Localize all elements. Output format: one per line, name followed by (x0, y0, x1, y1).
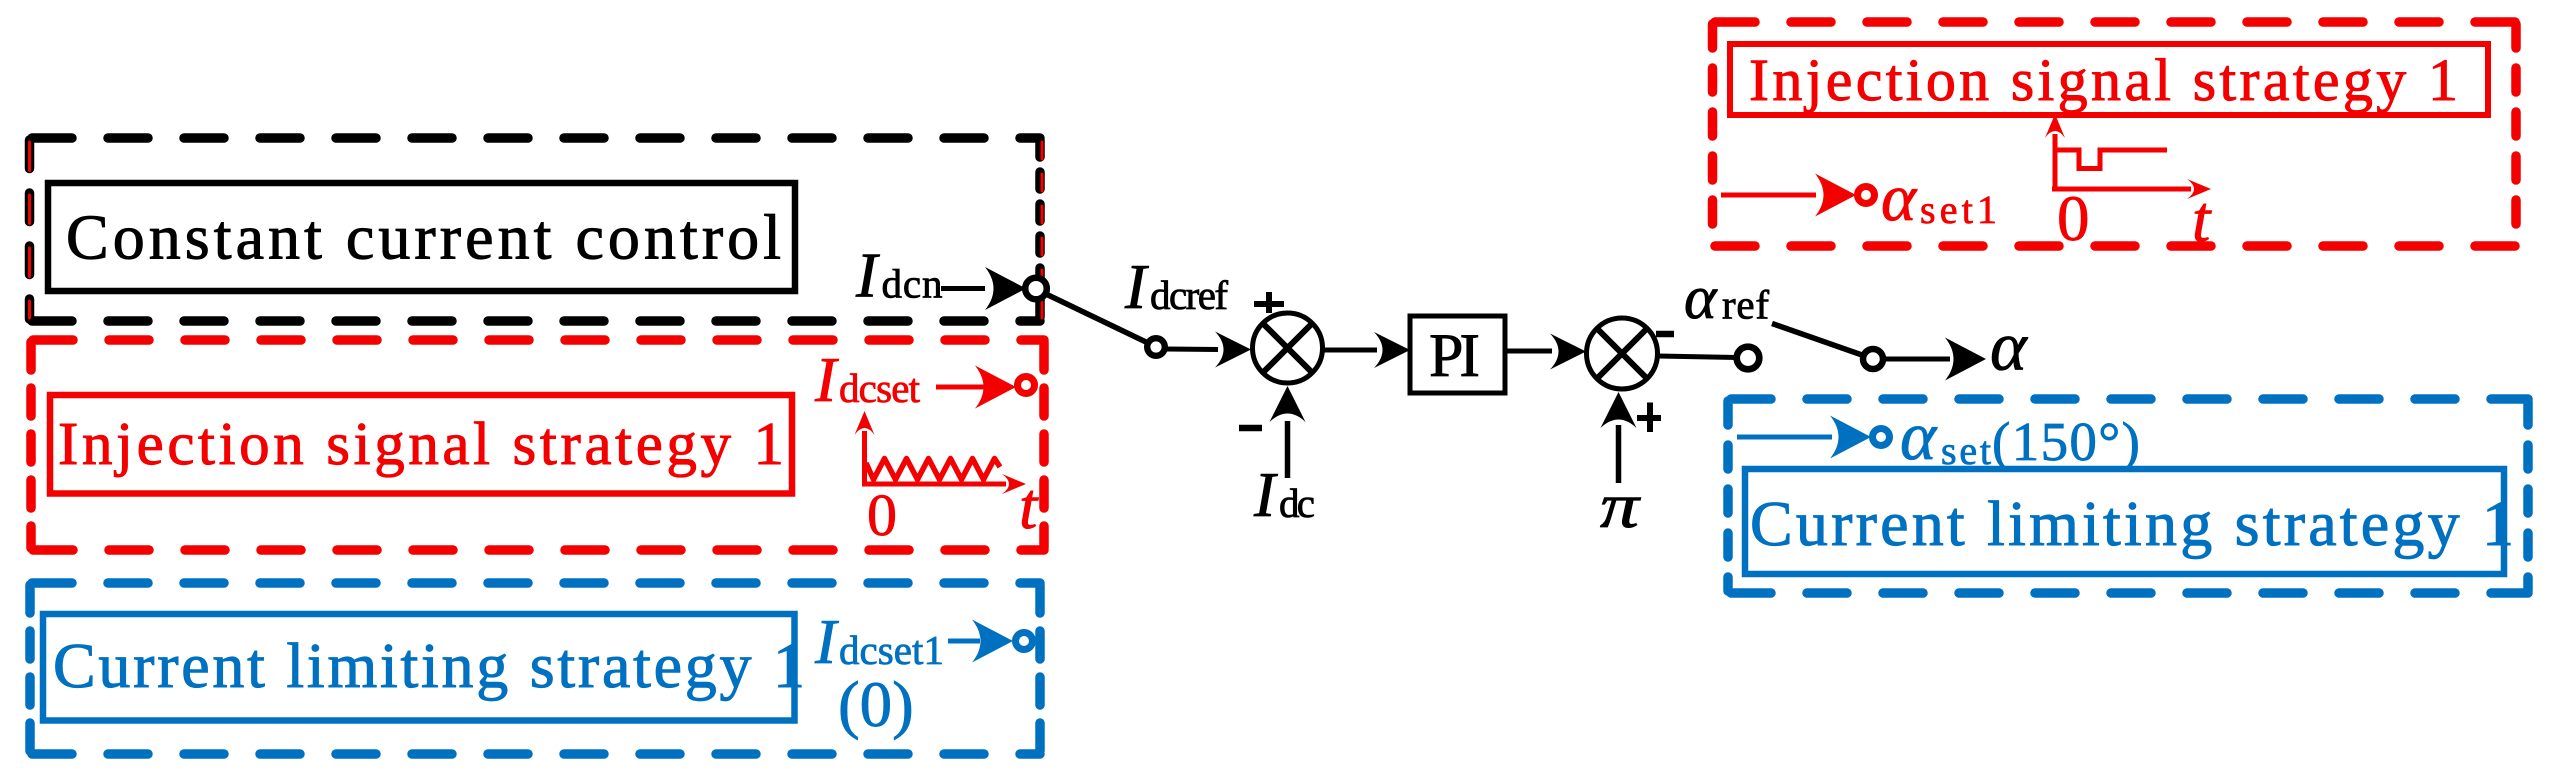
node: switch contact (alpha-ref) (1737, 347, 1760, 370)
wire: PI to summing junction S2 (1505, 334, 1586, 370)
svg-text:dcn: dcn (882, 261, 943, 307)
svg-text:0: 0 (2057, 183, 2090, 255)
label Idc (1253, 459, 1315, 530)
svg-text:α: α (1684, 264, 1718, 332)
node: alpha-set1 contact circle (1858, 187, 1875, 204)
wire: Idcset arrow to node (936, 366, 1016, 409)
block: Current limiting strategy 1 (43, 614, 805, 721)
svg-text:Injection signal strategy 1: Injection signal strategy 1 (1749, 47, 2458, 113)
svg-text:Current limiting strategy 1: Current limiting strategy 1 (53, 630, 805, 701)
wire: S1 to PI (1322, 332, 1410, 368)
summing junction S1 (1253, 313, 1323, 383)
svg-text:I: I (1124, 251, 1149, 322)
svg-text:dcset: dcset (839, 365, 921, 411)
svg-text:π: π (1600, 470, 1641, 541)
wire: Idcref to summing junction S1 (1166, 332, 1251, 368)
dashed group box B3: current limiting strategy 1 (blue) (30, 583, 1040, 754)
label alpha-set(150) (1900, 398, 2140, 474)
dashed group box B5: current limiting strategy 1 (right, blue) (1728, 399, 2528, 593)
svg-text:dcref: dcref (1150, 272, 1228, 318)
svg-text:Current limiting strategy 1: Current limiting strategy 1 (1750, 488, 2514, 559)
wire: Idc arrow into S1 (1270, 386, 1306, 478)
waveform: step (injection signal right) (2052, 134, 2191, 189)
label Idcset1 (814, 606, 944, 677)
svg-text:I: I (814, 606, 839, 677)
label Idcset (814, 344, 921, 415)
minus sign (S2 input) (1656, 331, 1674, 338)
switch arm SW1 (1046, 294, 1146, 342)
wire: pi arrow into S2 (1601, 392, 1637, 483)
block: Injection signal strategy 1 (right) (1730, 44, 2488, 115)
label alpha-set1 (1881, 161, 1997, 235)
node: alpha-set contact circle (1873, 429, 1890, 446)
node: Idcset contact circle (1018, 377, 1035, 394)
block: Injection signal strategy 1 (50, 395, 792, 494)
label alpha-ref (1684, 264, 1769, 332)
wire: Idcn arrow to switch (941, 267, 1026, 310)
dashed group box B2: injection signal strategy 1 (red) (31, 340, 1044, 550)
block: Current limiting strategy 1 (right) (1745, 469, 2514, 574)
plus sign (S1 input) (1254, 292, 1284, 313)
svg-text:(150°): (150°) (1992, 411, 2140, 472)
red underlay line on B1 left edge (28, 142, 31, 318)
node: switch input contact (Idcn) (1025, 278, 1047, 300)
dashed group box B1: constant current control (black) (30, 138, 1041, 321)
switch arm SW2 (1772, 324, 1862, 356)
wire: S2 to alpha-ref switch (1658, 356, 1737, 358)
minus sign (S1 input) (1239, 425, 1262, 432)
red underlay line on B1 right edge (1041, 142, 1044, 318)
block: Constant current control (48, 183, 795, 291)
svg-text:I: I (814, 344, 839, 415)
svg-text:I: I (855, 240, 880, 311)
svg-text:PI: PI (1429, 322, 1480, 390)
wire: arrow to alpha-set node (1737, 416, 1871, 459)
svg-text:α: α (1990, 309, 2028, 386)
svg-text:Constant current control: Constant current control (66, 202, 781, 273)
svg-text:α: α (1900, 398, 1938, 474)
svg-text:0: 0 (867, 482, 897, 548)
svg-text:(0): (0) (838, 669, 914, 741)
svg-text:dc: dc (1279, 480, 1315, 526)
waveform: sawtooth (injection signal) (862, 431, 1006, 484)
wire: arrow to alpha output (1885, 338, 1986, 381)
label Idcref (1124, 251, 1228, 322)
plus sign (S2 input) (1637, 403, 1661, 433)
node: Idcset1 contact circle (1016, 633, 1033, 650)
node: switch pole (Idcref) (1147, 338, 1165, 356)
wire: Idcset1 arrow to node (948, 620, 1013, 663)
svg-text:Injection signal strategy 1: Injection signal strategy 1 (58, 411, 784, 478)
svg-text:t: t (2192, 183, 2212, 256)
svg-text:ref: ref (1722, 282, 1769, 328)
svg-text:I: I (1253, 459, 1278, 530)
node: switch pole (alpha) (1863, 349, 1883, 369)
summing junction S2 (1587, 318, 1658, 389)
svg-text:t: t (1019, 470, 1039, 543)
label Idcn (855, 240, 943, 311)
svg-text:dcset1: dcset1 (839, 627, 944, 673)
dashed group box B4: injection signal strategy 1 (right, red) (1713, 22, 2517, 246)
wire: arrow to alpha-set1 node (1721, 174, 1856, 217)
block PI (1410, 316, 1505, 393)
svg-text:α: α (1881, 161, 1918, 235)
